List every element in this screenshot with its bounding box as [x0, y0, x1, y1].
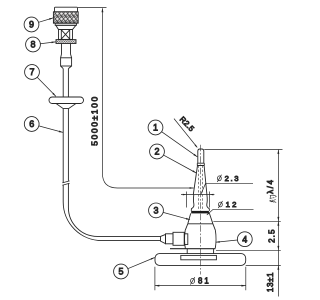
mounting skirt — [187, 249, 213, 254]
balloon 7 leader — [37, 77, 56, 96]
balloon 3 — [149, 203, 164, 218]
svg-text:12: 12 — [226, 200, 239, 209]
balloon 2 leader — [164, 155, 197, 173]
right vertical dimension line — [277, 150, 279, 297]
taper to cable — [61, 66, 64, 69]
phi81 extension lines — [155, 267, 246, 290]
lower skirt cone — [185, 224, 215, 231]
plug nut body (part 4 connector) — [173, 232, 184, 245]
svg-text:6: 6 — [29, 119, 34, 129]
extension line from flange bottom — [216, 249, 281, 251]
svg-text:1: 1 — [153, 123, 158, 133]
label phi 12 with leader — [207, 209, 254, 215]
svg-text:2.3: 2.3 — [225, 174, 241, 183]
upper skirt cone — [188, 213, 213, 223]
knurled coupling ring (part 9) — [53, 12, 78, 23]
extension line from base bottom — [246, 264, 281, 266]
balloon 2 — [150, 144, 165, 159]
connector cap (part 9) — [55, 7, 78, 12]
svg-text:9: 9 — [29, 20, 34, 30]
kanji yaku (approx) glyph — [270, 195, 277, 202]
neck with waist (part 3) — [191, 195, 194, 211]
ferrite bead disc (part 7) — [49, 97, 84, 104]
plug sleeve — [166, 234, 174, 244]
plug nose — [184, 234, 188, 245]
connector rim — [55, 23, 76, 25]
label recess slot — [181, 255, 217, 259]
strain relief body — [61, 54, 72, 58]
balloon 6 leader — [39, 126, 63, 132]
cable long vertical left line (with break) — [63, 109, 160, 241]
cable upper segment left line — [62, 69, 64, 97]
svg-text:2.5: 2.5 — [267, 228, 276, 242]
cable break symbol — [62, 181, 69, 185]
dimension line 5000±100 (bent) — [102, 8, 193, 188]
balloon 5 — [114, 264, 129, 279]
balloon 4 leader — [216, 240, 238, 242]
balloon 7 — [25, 65, 40, 80]
whip cone (part 2) — [193, 166, 207, 195]
extension line from tip top — [204, 149, 282, 151]
bead skirt — [56, 104, 76, 109]
whip tip (part 1) — [198, 149, 204, 163]
cable boot at plug — [161, 234, 166, 243]
centerline — [200, 145, 202, 275]
balloon 3 leader — [163, 212, 190, 219]
R2.5 leader — [174, 119, 197, 148]
dim 23 extension lines — [187, 192, 210, 208]
balloon 8 leader — [40, 42, 55, 44]
balloon 5 leader — [128, 258, 155, 269]
gasket band (part 8) — [56, 40, 76, 44]
svg-text:3: 3 — [153, 206, 158, 216]
svg-text:4: 4 — [242, 234, 247, 244]
svg-text:5000±100: 5000±100 — [90, 95, 100, 146]
svg-text:81: 81 — [198, 277, 211, 286]
magnet base (part 5) — [155, 254, 246, 266]
hidden internal wire (dashed) — [199, 166, 203, 211]
connector stem — [62, 44, 71, 55]
balloon 1 — [148, 120, 163, 135]
cable upper segment right line — [67, 69, 69, 97]
connector body with X brace — [59, 30, 73, 40]
svg-text:7: 7 — [29, 67, 34, 77]
cable long vertical right line (with break) — [68, 109, 160, 237]
balloon 1 leader — [162, 132, 198, 157]
balloon 9 leader — [39, 18, 54, 22]
svg-text:λ/4: λ/4 — [266, 178, 275, 193]
dimension text phi81 — [191, 278, 195, 283]
tip collar band — [197, 163, 204, 165]
svg-text:2: 2 — [154, 147, 159, 157]
phi81 dimension line — [155, 285, 246, 287]
elbow barrel — [185, 230, 216, 248]
balloon 4 — [237, 232, 252, 247]
extension line from elbow at 221.3 — [213, 220, 280, 222]
thick collar band — [191, 211, 209, 214]
svg-text:13±1: 13±1 — [266, 272, 275, 292]
balloon 6 — [24, 117, 39, 132]
svg-text:8: 8 — [30, 40, 35, 50]
dim 23 dimension line — [181, 194, 214, 196]
seam line — [188, 223, 213, 225]
svg-text:R2.5: R2.5 — [178, 115, 196, 134]
connector taper shoulder — [56, 25, 76, 29]
svg-text:5: 5 — [118, 267, 123, 277]
balloon 9 — [24, 17, 39, 32]
label phi 2.3 with leader — [201, 183, 253, 194]
balloon 8 — [26, 37, 41, 52]
flange bottom line — [170, 248, 215, 250]
extension line from connector top — [78, 7, 107, 9]
